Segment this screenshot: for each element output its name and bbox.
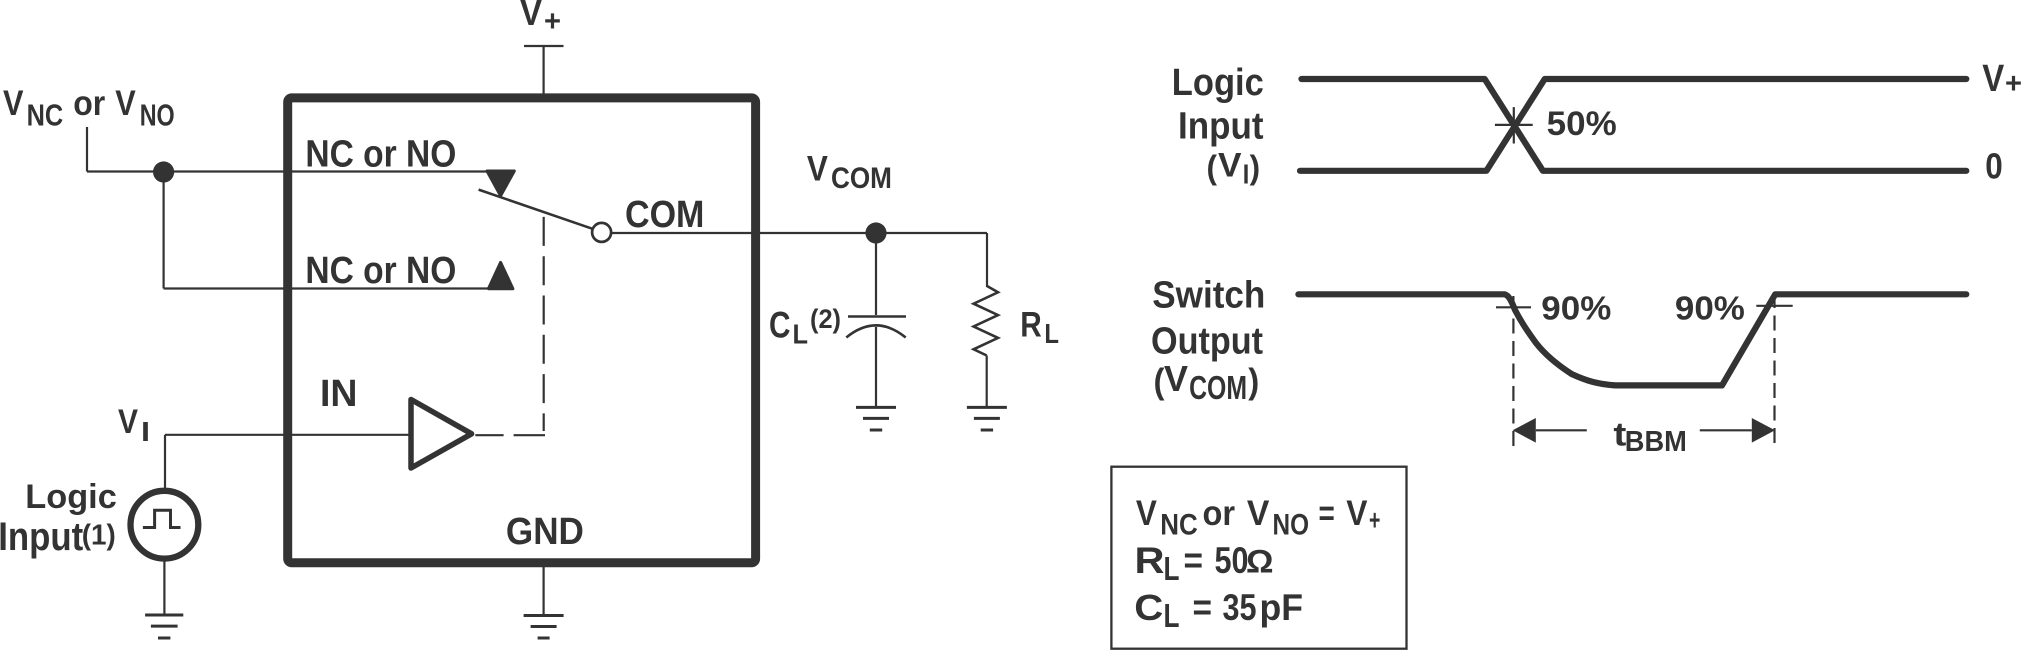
Logic Input (VI) axis label <box>1172 62 1264 190</box>
svg-text:=: = <box>1193 587 1213 628</box>
svg-text:Logic: Logic <box>25 478 117 516</box>
svg-text:50%: 50% <box>1547 105 1617 143</box>
svg-text:pF: pF <box>1260 587 1304 628</box>
svg-text:+: + <box>544 5 561 38</box>
wire junction down <box>163 172 165 289</box>
note line 1: VNC or VNO = V+ <box>1136 494 1381 542</box>
svg-text:BBM: BBM <box>1625 426 1687 458</box>
svg-text:NC: NC <box>27 97 64 132</box>
svg-text:Ω: Ω <box>1246 544 1274 580</box>
svg-text:V: V <box>3 84 24 123</box>
svg-text:R: R <box>1135 540 1165 581</box>
COM pole circle <box>592 223 611 242</box>
switch lever <box>479 190 593 229</box>
switch device box U1 <box>288 98 756 563</box>
svg-text:(1): (1) <box>82 520 116 552</box>
capacitor CL bottom wire <box>875 327 877 406</box>
NO contact triangle (bottom) <box>488 262 513 288</box>
svg-text:(2): (2) <box>810 304 841 334</box>
ground (GND pin) <box>524 616 564 639</box>
V_I label <box>118 403 150 447</box>
driver buffer amplifier <box>411 400 472 469</box>
svg-text:C: C <box>769 305 791 346</box>
svg-text:or: or <box>73 84 105 123</box>
svg-text:): ) <box>1248 362 1259 401</box>
svg-text:=: = <box>1319 494 1335 533</box>
svg-text:IN: IN <box>320 373 358 415</box>
wire V_I to IN buffer <box>165 434 411 436</box>
svg-text:NO: NO <box>140 97 175 132</box>
junction node dot <box>153 161 174 182</box>
svg-text:L: L <box>793 319 809 350</box>
svg-text:NC: NC <box>1160 509 1198 542</box>
note line 2: RL = 50 ohm <box>1135 540 1274 587</box>
svg-text:V: V <box>118 403 138 441</box>
V_COM label <box>807 150 892 195</box>
dashed control line vertical <box>543 217 545 431</box>
wire corner to RL <box>986 233 988 287</box>
svg-text:I: I <box>1243 159 1250 190</box>
svg-text:V: V <box>520 0 542 33</box>
Switch Output (V_COM) axis label <box>1151 275 1265 406</box>
logic input waveform falling trace <box>1302 79 1967 171</box>
resistor RL zigzag <box>974 286 998 356</box>
svg-text:V: V <box>1247 494 1270 533</box>
svg-text:90%: 90% <box>1675 290 1745 327</box>
svg-text:or: or <box>1203 494 1236 533</box>
svg-text:(: ( <box>1207 149 1218 186</box>
svg-text:): ) <box>1250 149 1261 186</box>
wire V_I corner down to source <box>164 435 166 489</box>
90% tick right <box>1756 305 1792 307</box>
svg-text:+: + <box>2005 68 2021 100</box>
svg-text:0: 0 <box>1985 145 2003 186</box>
capacitor CL <box>846 317 906 338</box>
svg-text:COM: COM <box>1189 369 1247 406</box>
dashed marker line right <box>1773 293 1775 448</box>
capacitor CL top wire <box>875 233 877 315</box>
svg-text:V: V <box>1218 146 1242 184</box>
90% tick left <box>1496 306 1531 308</box>
wire COM to output node <box>611 232 987 234</box>
ground (CL) <box>856 407 896 430</box>
wire stub below V_NC label <box>86 127 88 172</box>
note line 3: CL = 35 pF <box>1134 587 1303 634</box>
svg-text:V: V <box>1136 494 1158 533</box>
svg-text:Input: Input <box>0 515 83 559</box>
svg-text:V: V <box>1346 494 1368 533</box>
svg-text:50: 50 <box>1215 540 1249 581</box>
svg-text:=: = <box>1184 540 1204 581</box>
tBBM label <box>1613 415 1686 458</box>
V+ level label <box>1982 58 2021 100</box>
svg-text:V: V <box>1164 358 1188 399</box>
svg-text:COM: COM <box>831 162 892 195</box>
NC contact triangle (top) <box>487 171 514 196</box>
ground (logic source) <box>145 615 183 638</box>
svg-text:GND: GND <box>506 511 584 553</box>
svg-text:NC or NO: NC or NO <box>305 133 456 175</box>
svg-text:L: L <box>1044 318 1059 349</box>
GND pin stub <box>542 567 544 614</box>
V+ supply stub <box>524 46 564 94</box>
dashed control line horizontal <box>475 434 545 436</box>
svg-text:L: L <box>1164 550 1180 587</box>
tBBM dimension arrow left <box>1513 418 1587 443</box>
svg-text:V: V <box>1982 58 2005 100</box>
Logic Input(1) label <box>0 478 117 559</box>
V_NC or V_NO source label <box>3 84 175 132</box>
50% crossing tick <box>1495 107 1533 143</box>
switch output waveform <box>1298 294 1966 385</box>
svg-text:V: V <box>115 84 136 123</box>
svg-text:NC or NO: NC or NO <box>305 250 456 292</box>
svg-text:Switch: Switch <box>1152 275 1265 317</box>
svg-text:90%: 90% <box>1541 290 1611 327</box>
wire to NO pin <box>164 287 492 289</box>
logic input waveform rising trace <box>1300 79 1966 171</box>
V_COM junction node dot <box>865 222 886 243</box>
svg-text:Output: Output <box>1151 321 1263 363</box>
wire source to ground <box>163 559 165 614</box>
svg-text:L: L <box>1164 597 1180 634</box>
RL label <box>1020 305 1059 349</box>
V+ supply label <box>520 0 561 38</box>
svg-text:+: + <box>1369 505 1380 537</box>
ground (RL) <box>967 407 1007 430</box>
svg-text:35: 35 <box>1223 587 1257 628</box>
logic input pulse source <box>131 491 199 559</box>
tBBM dimension arrow right <box>1700 418 1775 443</box>
svg-text:V: V <box>807 150 829 189</box>
CL label <box>769 304 841 350</box>
dashed marker line left <box>1512 296 1514 448</box>
note box <box>1111 467 1406 649</box>
resistor RL bottom wire <box>986 356 988 407</box>
svg-text:Input: Input <box>1178 106 1264 148</box>
svg-text:C: C <box>1134 587 1163 628</box>
svg-text:NO: NO <box>1273 509 1310 542</box>
svg-text:Logic: Logic <box>1172 62 1264 104</box>
svg-text:R: R <box>1020 305 1042 344</box>
svg-text:COM: COM <box>625 194 704 236</box>
wire V_NC to NC pin <box>87 170 490 172</box>
svg-text:I: I <box>141 416 150 447</box>
